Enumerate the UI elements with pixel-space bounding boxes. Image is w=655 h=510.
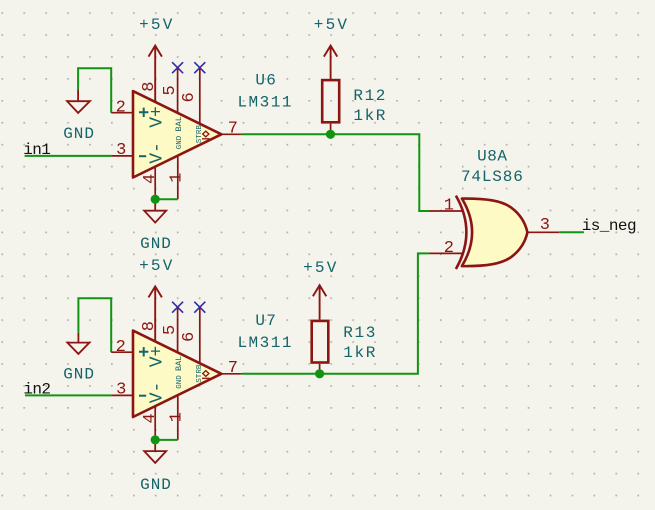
svg-text:V-: V- bbox=[148, 142, 168, 164]
svg-text:4: 4 bbox=[141, 174, 160, 184]
power +5V (U7 pin8) bbox=[149, 286, 162, 341]
svg-text:GND: GND bbox=[140, 235, 172, 253]
resistor R13 bbox=[312, 321, 329, 363]
svg-text:8: 8 bbox=[140, 81, 159, 91]
svg-text:3: 3 bbox=[116, 141, 126, 160]
wire GND to U6 pin2 bbox=[78, 68, 111, 113]
svg-text:1: 1 bbox=[444, 196, 454, 215]
svg-text:5: 5 bbox=[161, 85, 180, 95]
svg-text:4: 4 bbox=[141, 413, 160, 423]
GND symbol (below U7) bbox=[144, 440, 166, 463]
svg-text:+5V: +5V bbox=[303, 259, 338, 277]
svg-text:GND: GND bbox=[176, 135, 184, 149]
wire U7 pin1 to pin4 bbox=[155, 439, 178, 441]
svg-text:8: 8 bbox=[140, 321, 159, 331]
wire XOR out bbox=[559, 231, 584, 233]
svg-text:+5V: +5V bbox=[139, 257, 174, 275]
U7 pin name + (pin2) bbox=[139, 347, 148, 356]
wire U6 out to XOR pin1 bbox=[242, 134, 430, 211]
svg-text:74LS86: 74LS86 bbox=[461, 168, 524, 186]
U6 pin name - (pin3) bbox=[139, 155, 146, 157]
power +5V (R13) bbox=[313, 285, 326, 319]
svg-text:GND: GND bbox=[176, 375, 184, 389]
svg-text:1kR: 1kR bbox=[353, 107, 387, 125]
GND symbol (below U6) bbox=[144, 199, 166, 222]
power +5V (R12) bbox=[324, 46, 337, 79]
U6 pin name + (pin2) bbox=[139, 108, 148, 117]
junction R13/out bbox=[315, 369, 324, 378]
GND symbol (left of U7) bbox=[67, 333, 89, 354]
svg-text:2: 2 bbox=[116, 338, 126, 357]
U6 pin 7 bbox=[221, 133, 241, 135]
wire in1 net bbox=[25, 155, 112, 157]
no-connect X pin5 U7 bbox=[172, 302, 183, 313]
svg-text:in2: in2 bbox=[23, 381, 50, 399]
no-connect X pin6 U6 bbox=[194, 62, 205, 73]
svg-text:7: 7 bbox=[228, 120, 238, 139]
wire GND to U7 pin2 bbox=[78, 298, 111, 352]
resistor R12 bbox=[322, 80, 339, 122]
U8A pin 2 bbox=[430, 252, 463, 254]
U6 pin 6 bbox=[199, 68, 201, 124]
svg-text:V+: V+ bbox=[148, 346, 168, 368]
svg-text:GND: GND bbox=[140, 476, 172, 494]
svg-text:3: 3 bbox=[116, 381, 126, 400]
svg-text:6: 6 bbox=[180, 332, 199, 342]
svg-text:+5V: +5V bbox=[139, 16, 174, 34]
U6 pin 3 bbox=[111, 155, 133, 157]
U7 pin name - (pin3) bbox=[139, 395, 146, 397]
xor gate U8A body bbox=[462, 199, 528, 267]
svg-text:V-: V- bbox=[148, 382, 168, 404]
svg-text:5: 5 bbox=[161, 325, 180, 335]
U8A pin 3 bbox=[527, 231, 559, 233]
U7 pin 2 bbox=[111, 351, 133, 353]
U6 pin 1 bbox=[177, 156, 179, 199]
wire U7 out to XOR pin2 bbox=[242, 253, 430, 373]
junction U7 gnd bbox=[151, 435, 160, 444]
junction R12/out bbox=[326, 130, 335, 139]
svg-text:2: 2 bbox=[116, 98, 126, 117]
power +5V (U6 pin8) bbox=[149, 46, 162, 102]
U7 pin 3 bbox=[111, 394, 133, 396]
U7 pin 5 bbox=[177, 307, 179, 352]
U6 open-collector mark bbox=[202, 131, 210, 139]
junction U6 gnd bbox=[151, 195, 160, 204]
U6 pin 4 bbox=[154, 167, 156, 199]
U7 pin 4 bbox=[154, 406, 156, 440]
wire U6 pin1 to pin4 bbox=[155, 198, 178, 200]
svg-text:BAL: BAL bbox=[174, 356, 184, 371]
U6 pin 5 bbox=[177, 68, 179, 113]
svg-text:LM311: LM311 bbox=[237, 93, 293, 111]
svg-text:LM311: LM311 bbox=[237, 334, 293, 352]
svg-text:1kR: 1kR bbox=[343, 344, 377, 362]
svg-text:U6: U6 bbox=[255, 72, 277, 90]
svg-text:2: 2 bbox=[444, 239, 454, 258]
svg-text:R12: R12 bbox=[353, 87, 387, 105]
R13 bottom pin bbox=[319, 364, 321, 374]
svg-text:GND: GND bbox=[63, 365, 95, 383]
R12 bottom pin bbox=[330, 124, 332, 135]
U7 open-collector mark bbox=[202, 371, 210, 379]
svg-text:U7: U7 bbox=[255, 312, 277, 330]
U7 pin 6 bbox=[199, 307, 201, 363]
U6 pin 2 bbox=[111, 112, 133, 114]
svg-text:3: 3 bbox=[540, 216, 550, 235]
svg-text:+5V: +5V bbox=[314, 16, 349, 34]
op-amp U6 body (LM311 triangle) bbox=[133, 91, 221, 177]
svg-text:6: 6 bbox=[180, 92, 199, 102]
U7 pin 1 bbox=[177, 395, 179, 440]
op-amp U7 body (LM311 triangle) bbox=[133, 331, 221, 417]
svg-text:1: 1 bbox=[167, 412, 186, 422]
svg-text:is_neg: is_neg bbox=[582, 217, 636, 235]
svg-text:R13: R13 bbox=[343, 324, 377, 342]
U8A pin 1 bbox=[430, 210, 463, 212]
U7 pin 7 bbox=[221, 373, 241, 375]
svg-text:GND: GND bbox=[63, 125, 95, 143]
svg-text:U8A: U8A bbox=[477, 147, 507, 165]
svg-text:1: 1 bbox=[167, 173, 186, 183]
no-connect X pin5 U6 bbox=[172, 62, 183, 73]
svg-text:7: 7 bbox=[228, 359, 238, 378]
wire in2 net bbox=[25, 394, 111, 396]
svg-text:in1: in1 bbox=[23, 141, 50, 159]
no-connect X pin6 U7 bbox=[194, 302, 205, 313]
GND symbol (top left) bbox=[67, 89, 90, 113]
xor gate U8A leading arc bbox=[456, 196, 467, 269]
svg-text:BAL: BAL bbox=[174, 116, 184, 131]
svg-text:V+: V+ bbox=[148, 106, 168, 128]
